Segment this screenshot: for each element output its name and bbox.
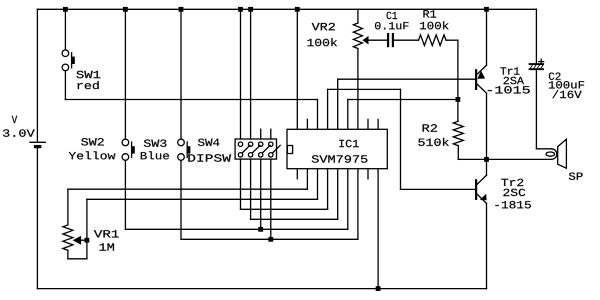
wire C1 to R1 [394, 39, 419, 41]
wire DIPSW col3 bottom lead [260, 159, 262, 229]
node rail junction SW3 [179, 7, 184, 12]
wire left rail upper (battery +) [36, 9, 38, 142]
node junction R1 / R2 / IC1 pin6 [456, 97, 461, 102]
wire IC1 pin1 top to rail [295, 7, 300, 12]
node rail junction SW2 [123, 7, 128, 12]
resistor R2 510k [453, 121, 463, 146]
wire DIPSW col3 top stub [260, 129, 262, 139]
wire DIPSW col2 top lead [250, 9, 252, 139]
node junction DIPSW col4 / SW3 bus [268, 237, 273, 242]
node junction Tr1/Tr2 collectors / R2 / speaker [484, 157, 489, 162]
capacitor C1 0.1uF [387, 33, 389, 47]
wire SW3 top lead [180, 9, 182, 139]
wire DIPSW col4 top stub [270, 129, 272, 139]
wire SW2 top lead [124, 9, 126, 139]
wire IC1 pin5 top to Tr1 base [337, 79, 339, 129]
op-amp IC1 SVM7975 [287, 129, 387, 168]
wire IC1 pin4 top to Tr2 base [327, 89, 329, 129]
wire IC1 pin8 top stub [367, 119, 369, 129]
wire IC1 pin9 bottom to ground rail [377, 169, 379, 289]
potentiometer VR2 100k [357, 9, 359, 23]
potentiometer VR1 1M [67, 189, 69, 225]
wire bottom ground rail [37, 288, 486, 290]
battery V 3.0V [30, 141, 45, 143]
wire R2 bottom lead to collector node [457, 146, 459, 160]
wire DIPSW col2 bottom lead to IC1 pin5 bottom [250, 159, 252, 219]
node junction IC1 pin9 / ground rail [376, 286, 381, 291]
node junction VR1 wiper [85, 238, 90, 243]
speaker SP [552, 149, 557, 160]
wire DIPSW col1 top lead [240, 9, 242, 139]
transistor Tr2 2SC-1815 [475, 179, 477, 200]
node junction DIPSW col3 / SW2 bus [258, 227, 263, 232]
wire VR1 wiper to IC1 pin3 bottom [86, 199, 88, 240]
wire C2 to speaker top [535, 70, 537, 149]
switch SW2 Yellow [122, 139, 129, 146]
switch SW4 DIPSW [235, 139, 276, 159]
wire IC1 pin1 bottom stub [296, 169, 298, 179]
wire SW2 bottom lead to IC1 pin6 bottom [124, 160, 126, 229]
wire IC1 pin2 top stub [306, 119, 308, 129]
node rail junction DIPSW col2 [248, 7, 253, 12]
wire Tr1 emitter to rail [486, 9, 488, 65]
wire Tr2 collector up to node [486, 159, 488, 175]
switch SW1 red [62, 50, 69, 57]
wire SW1 bottom lead to IC1 pin3 top [64, 71, 66, 100]
wire SW3 bottom lead to IC1 pin7 bottom [180, 160, 182, 239]
node junction Tr1 emitter / rail [484, 7, 489, 12]
wire DIPSW col4 bottom lead [270, 159, 272, 239]
wire SW1 top lead [64, 9, 66, 50]
switch SW3 Blue [178, 139, 185, 146]
wire IC1 pin8 bottom stub [367, 169, 369, 179]
wire speaker bottom to collector node [487, 158, 552, 160]
wire Tr1 collector down to node [486, 93, 488, 159]
resistor R1 100k [419, 35, 447, 46]
wire DIPSW col1 bottom lead to IC1 pin4 bottom [240, 159, 242, 209]
wire rail to C2 [535, 9, 537, 63]
wire R1 right lead down [446, 39, 458, 41]
wire IC1 pin6 top to R1/R2 node [347, 100, 349, 130]
wire VR2 wiper to C1 [369, 39, 388, 41]
transistor Tr1 2SA-1015 [475, 69, 477, 90]
wire IC1 pin9 top stub [377, 119, 379, 129]
wire Tr2 emitter to ground rail [486, 203, 488, 288]
node rail junction DIPSW col1 [238, 7, 243, 12]
capacitor C2 100uF/16V electrolytic [530, 63, 543, 65]
wire VR1 top lead to IC1 pin2 bottom [68, 188, 308, 190]
wire left rail lower (battery -) [36, 148, 38, 288]
node rail junction SW1 [63, 7, 68, 12]
wire top supply rail [37, 8, 536, 10]
